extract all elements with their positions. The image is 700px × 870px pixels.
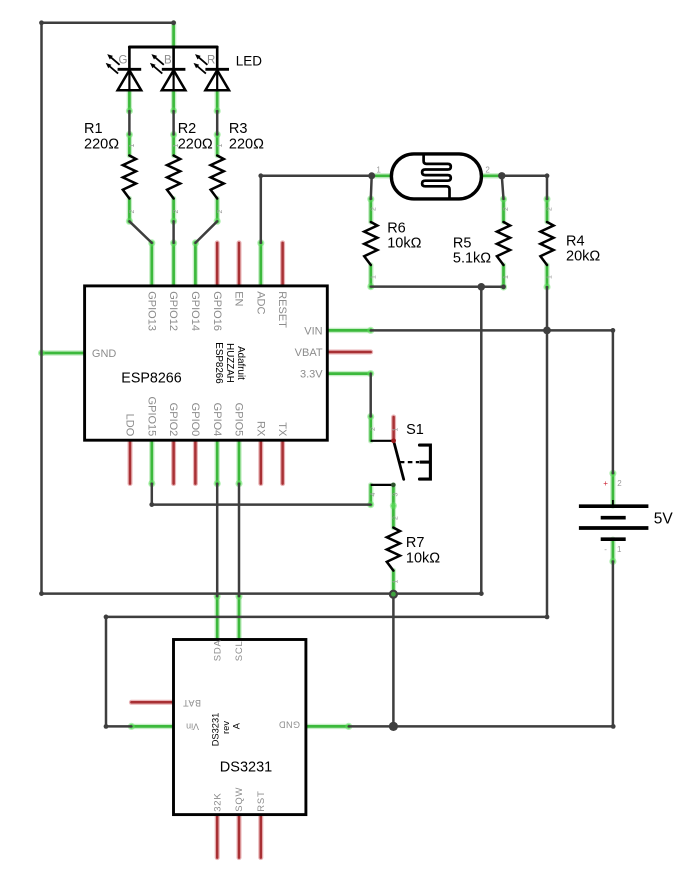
svg-text:R3: R3	[229, 121, 248, 137]
svg-text:1: 1	[173, 143, 180, 147]
svg-text:GPIO4: GPIO4	[211, 403, 223, 437]
svg-text:GND: GND	[92, 348, 117, 360]
svg-text:R1: R1	[84, 121, 103, 137]
svg-text:2: 2	[485, 166, 490, 175]
svg-text:2: 2	[503, 207, 510, 211]
svg-text:rev: rev	[221, 721, 231, 734]
svg-text:1: 1	[129, 143, 136, 147]
svg-text:2: 2	[547, 207, 554, 211]
svg-text:VBAT: VBAT	[295, 347, 323, 359]
svg-text:2: 2	[617, 479, 622, 488]
svg-text:GPIO12: GPIO12	[167, 291, 179, 331]
svg-text:2: 2	[370, 207, 377, 211]
svg-text:RX: RX	[254, 421, 266, 437]
svg-text:R5: R5	[453, 235, 472, 251]
svg-text:ESP8266: ESP8266	[213, 342, 224, 384]
svg-text:5V: 5V	[654, 511, 674, 528]
svg-text:2: 2	[217, 209, 224, 213]
svg-text:R2: R2	[178, 121, 197, 137]
svg-text:1: 1	[617, 545, 622, 554]
svg-text:GND: GND	[279, 719, 301, 729]
svg-text:DS3231: DS3231	[211, 713, 221, 747]
svg-text:LED: LED	[236, 53, 263, 68]
svg-text:R4: R4	[566, 233, 585, 249]
svg-text:SCL: SCL	[234, 640, 245, 661]
svg-text:1: 1	[217, 143, 224, 147]
svg-text:220Ω: 220Ω	[178, 136, 213, 152]
svg-text:10kΩ: 10kΩ	[406, 550, 440, 566]
svg-text:R7: R7	[406, 535, 425, 551]
svg-text:LDO: LDO	[124, 414, 136, 437]
svg-text:G: G	[119, 55, 128, 67]
svg-text:1: 1	[393, 579, 400, 583]
svg-text:ESP8266: ESP8266	[121, 370, 181, 386]
svg-text:RESET: RESET	[276, 291, 288, 328]
svg-text:4: 4	[370, 492, 377, 496]
svg-text:1: 1	[503, 275, 510, 279]
svg-text:1: 1	[370, 275, 377, 279]
svg-text:Adafruit: Adafruit	[235, 346, 246, 380]
svg-text:220Ω: 220Ω	[84, 136, 119, 152]
svg-text:2: 2	[393, 516, 400, 520]
svg-text:220Ω: 220Ω	[229, 136, 264, 152]
svg-text:10kΩ: 10kΩ	[387, 236, 421, 252]
svg-text:BAT: BAT	[183, 698, 201, 708]
svg-text:SQW: SQW	[234, 787, 245, 812]
svg-text:GPIO13: GPIO13	[145, 291, 157, 331]
svg-text:-: -	[604, 545, 607, 554]
svg-text:VIN: VIN	[304, 325, 322, 337]
svg-text:B: B	[164, 55, 172, 67]
svg-text:20kΩ: 20kΩ	[566, 249, 600, 265]
svg-text:32K: 32K	[212, 792, 223, 811]
svg-text:3: 3	[393, 492, 400, 496]
svg-text:R: R	[207, 55, 215, 67]
svg-text:TX: TX	[276, 422, 288, 437]
svg-text:1: 1	[547, 275, 554, 279]
svg-text:R6: R6	[387, 220, 406, 236]
svg-text:Vin: Vin	[186, 721, 199, 731]
svg-text:DS3231: DS3231	[220, 759, 272, 775]
svg-text:ADC: ADC	[254, 291, 266, 314]
svg-text:GPIO2: GPIO2	[167, 403, 179, 437]
svg-text:RST: RST	[256, 790, 267, 811]
svg-text:EN: EN	[233, 291, 245, 306]
svg-text:S1: S1	[406, 422, 424, 438]
svg-text:5.1kΩ: 5.1kΩ	[453, 251, 491, 267]
svg-text:GPIO5: GPIO5	[233, 403, 245, 437]
svg-text:2: 2	[370, 427, 377, 431]
svg-text:SDA: SDA	[212, 639, 223, 661]
svg-text:GPIO15: GPIO15	[145, 397, 157, 437]
svg-text:2: 2	[173, 209, 180, 213]
svg-text:1: 1	[393, 427, 400, 431]
svg-text:3.3V: 3.3V	[300, 369, 323, 381]
svg-text:1: 1	[376, 166, 381, 175]
svg-text:HUZZAH: HUZZAH	[224, 343, 235, 383]
svg-text:GPIO0: GPIO0	[189, 403, 201, 437]
svg-text:+: +	[603, 479, 608, 488]
svg-text:GPIO16: GPIO16	[211, 291, 223, 331]
svg-text:2: 2	[129, 209, 136, 213]
svg-text:GPIO14: GPIO14	[189, 291, 201, 331]
svg-text:A: A	[231, 722, 241, 729]
